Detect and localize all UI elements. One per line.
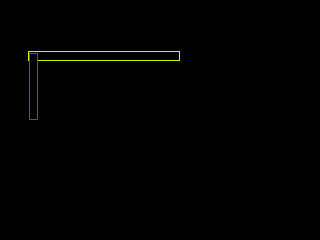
yellow horizontal bar: cols 28-179, rows 51-60: [29, 52, 180, 61]
purple vertical bar: cols 29-37, rows 53-119, black fill occludes yellow bottom edge: [30, 54, 38, 120]
